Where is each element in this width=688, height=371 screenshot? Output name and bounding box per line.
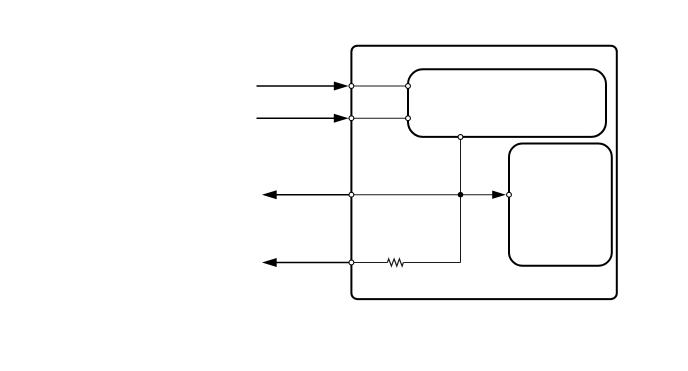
wire: lower horizontal net, right segment (403, 262, 460, 264)
node: pin on device left edge, input 1 (349, 84, 354, 89)
junction: solder dot at middle net crossing (458, 192, 464, 198)
node: pill left edge, input 1 (406, 84, 411, 89)
wire: vertical net from pill bottom node down (460, 137, 462, 263)
wire: input arrow 2 (into device) (257, 114, 349, 123)
node: inner bottom-right block left edge (507, 192, 512, 197)
wire: output arrow (bottom, out of device, pointing left) (262, 258, 352, 267)
wire: output arrow (middle, out of device, pointing left) (262, 190, 352, 199)
block: outer device body (351, 46, 616, 299)
node: pin on device left edge, middle output (349, 192, 354, 197)
node: pill left edge, input 2 (406, 116, 411, 121)
block: inner top rounded block (pill) (408, 69, 606, 137)
wire: lower horizontal net, left segment (351, 262, 387, 264)
resistor (zigzag in lower net) (387, 259, 403, 266)
node: pin on device left edge, bottom output (349, 260, 354, 265)
node: pill bottom edge (458, 135, 463, 140)
wire: pin 1 to pill input 1 (351, 85, 408, 87)
block: inner bottom-right rounded block (509, 144, 612, 266)
wire: middle horizontal net to inner block with arrowhead (351, 191, 506, 199)
wire: input arrow 1 (top, into device) (257, 82, 349, 91)
node: pin on device left edge, input 2 (349, 116, 354, 121)
wire: pin 2 to pill input 2 (351, 117, 408, 119)
